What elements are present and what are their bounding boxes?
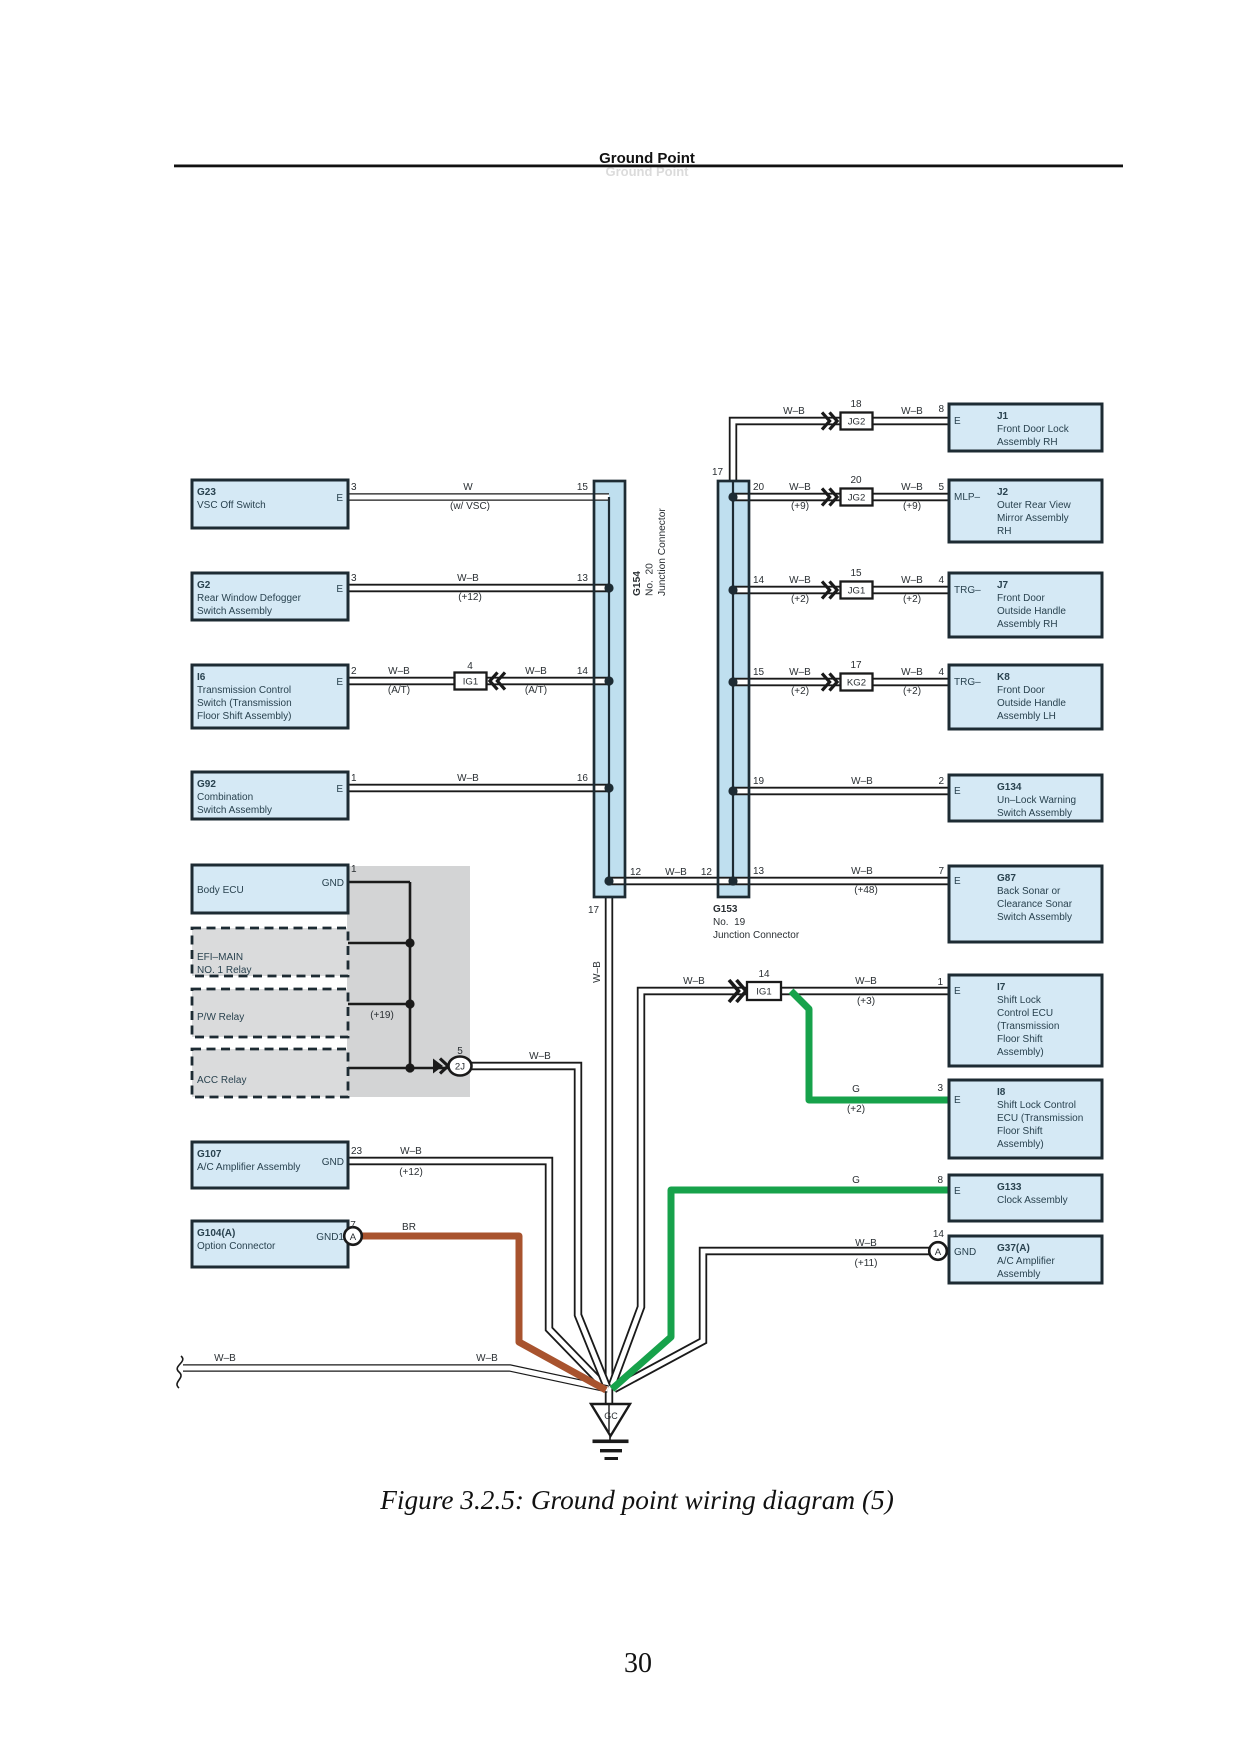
wire W-B from G153 pin 17 up and to JG2 to J1 pin 8 xyxy=(733,421,949,481)
svg-text:(+2): (+2) xyxy=(791,686,809,697)
svg-text:W–B: W–B xyxy=(901,667,923,678)
Body ECU box xyxy=(192,865,348,913)
svg-text:W–B: W–B xyxy=(214,1353,236,1364)
connector JG1 (J7 row) xyxy=(841,582,873,599)
svg-text:Transmission Control: Transmission Control xyxy=(197,685,291,696)
svg-text:GND1: GND1 xyxy=(316,1232,344,1243)
svg-text:(+2): (+2) xyxy=(791,594,809,605)
junction connector G154 bar fill xyxy=(594,481,625,897)
wire ACC relay to 2J connector xyxy=(346,1067,448,1070)
svg-text:8: 8 xyxy=(938,404,944,415)
svg-text:Rear Window Defogger: Rear Window Defogger xyxy=(197,593,302,604)
svg-text:Assembly RH: Assembly RH xyxy=(997,619,1058,630)
svg-text:14: 14 xyxy=(577,666,589,677)
connector IG1 (I7 row) xyxy=(747,982,781,1000)
svg-text:2J: 2J xyxy=(455,1062,465,1073)
svg-text:(+12): (+12) xyxy=(399,1167,423,1178)
connector JG2 (J2 row) xyxy=(841,489,873,506)
chevrons into JG2 (J2 row) xyxy=(822,488,837,505)
svg-text:W–B: W–B xyxy=(855,976,877,987)
wire EFI-MAIN relay to node xyxy=(346,942,410,944)
ground symbol bars xyxy=(609,1436,611,1441)
svg-text:5: 5 xyxy=(457,1046,463,1057)
wire W-B from G153 pin 20 to JG2 to J2 pin 5 xyxy=(733,493,949,501)
svg-text:JG2: JG2 xyxy=(848,493,866,504)
svg-text:12: 12 xyxy=(701,867,713,878)
svg-text:3: 3 xyxy=(351,573,357,584)
svg-text:E: E xyxy=(336,584,343,595)
wire vertical junction bus from Body ECU down to ACC relay wire xyxy=(409,882,412,1068)
svg-text:W–B: W–B xyxy=(783,406,805,417)
svg-text:I7: I7 xyxy=(997,982,1006,993)
node dot P/W relay xyxy=(405,999,414,1008)
ground triangle GC xyxy=(591,1404,630,1436)
junction dot at x=609 y=788 xyxy=(604,783,613,792)
connector I8 Shift Lock Control ECU xyxy=(949,1080,1102,1158)
P/W Relay dashed box xyxy=(192,989,348,1037)
svg-text:14: 14 xyxy=(758,969,770,980)
connector G87 Back Sonar or Clearance Sonar Switch Assembly xyxy=(949,866,1102,942)
svg-text:7: 7 xyxy=(938,866,944,877)
svg-text:5: 5 xyxy=(938,482,944,493)
svg-text:17: 17 xyxy=(712,467,724,478)
connector G37(A) A/C Amplifier Assembly xyxy=(949,1236,1102,1283)
svg-text:Option Connector: Option Connector xyxy=(197,1241,276,1252)
connector G92 Combination Switch Assembly xyxy=(192,772,348,819)
svg-text:W–B: W–B xyxy=(525,666,547,677)
svg-text:14: 14 xyxy=(933,1229,945,1240)
junction dot at x=609 y=881 xyxy=(604,876,613,885)
svg-text:RH: RH xyxy=(997,526,1011,537)
svg-text:Mirror Assembly: Mirror Assembly xyxy=(997,513,1069,524)
svg-text:19: 19 xyxy=(753,776,765,787)
chevrons into IG1 from right (I6 row) xyxy=(490,672,505,689)
svg-text:23: 23 xyxy=(351,1146,363,1157)
circle A terminal at G104(A) xyxy=(344,1227,362,1245)
svg-text:16: 16 xyxy=(577,773,589,784)
svg-text:3: 3 xyxy=(937,1083,943,1094)
svg-text:A/C Amplifier Assembly: A/C Amplifier Assembly xyxy=(197,1162,300,1173)
svg-text:Assembly: Assembly xyxy=(997,1269,1040,1280)
svg-text:Clearance Sonar: Clearance Sonar xyxy=(997,899,1073,910)
svg-text:J1: J1 xyxy=(997,411,1009,422)
svg-text:GND: GND xyxy=(322,1157,344,1168)
svg-text:TRG–: TRG– xyxy=(954,677,981,688)
svg-text:E: E xyxy=(336,677,343,688)
svg-text:(+2): (+2) xyxy=(903,686,921,697)
svg-text:W–B: W–B xyxy=(683,976,705,987)
svg-text:W–B: W–B xyxy=(789,575,811,586)
svg-text:7: 7 xyxy=(350,1220,356,1231)
svg-text:G133: G133 xyxy=(997,1182,1022,1193)
ACC Relay dashed box xyxy=(192,1049,348,1097)
junction connector G153 bar fill xyxy=(718,481,749,897)
svg-text:(+48): (+48) xyxy=(854,885,878,896)
svg-text:NO. 1 Relay: NO. 1 Relay xyxy=(197,965,251,976)
svg-text:GND: GND xyxy=(322,878,344,889)
svg-text:G37(A): G37(A) xyxy=(997,1243,1030,1254)
svg-text:W–B: W–B xyxy=(592,961,603,983)
svg-text:GND: GND xyxy=(954,1247,976,1258)
connector G104(A) Option Connector xyxy=(192,1221,348,1267)
label G154 No. 20 Junction Connector (rotated) xyxy=(632,508,668,596)
svg-text:W: W xyxy=(463,482,473,493)
svg-text:Assembly LH: Assembly LH xyxy=(997,711,1056,722)
svg-text:JG2: JG2 xyxy=(848,417,866,428)
connector KG2 (K8 row) xyxy=(841,674,873,691)
svg-text:G: G xyxy=(852,1175,860,1186)
svg-text:Outer Rear View: Outer Rear View xyxy=(997,500,1072,511)
connector G2 Rear Window Defogger Switch Assembly xyxy=(192,573,348,620)
svg-text:Un–Lock Warning: Un–Lock Warning xyxy=(997,795,1076,806)
svg-text:Outside Handle: Outside Handle xyxy=(997,606,1066,617)
svg-text:8: 8 xyxy=(937,1175,943,1186)
svg-text:E: E xyxy=(954,786,961,797)
svg-text:Switch Assembly: Switch Assembly xyxy=(197,606,272,617)
svg-text:Back Sonar or: Back Sonar or xyxy=(997,886,1061,897)
svg-text:Body ECU: Body ECU xyxy=(197,885,244,896)
svg-text:W–B: W–B xyxy=(901,575,923,586)
junction dot at x=733 y=590 xyxy=(728,585,737,594)
svg-text:17: 17 xyxy=(588,905,600,916)
svg-text:W–B: W–B xyxy=(789,667,811,678)
svg-text:2: 2 xyxy=(938,776,944,787)
wire W-B long from off-page left to ground point xyxy=(183,1368,608,1389)
chevrons into IG1 (I7 row) xyxy=(729,980,746,1002)
svg-text:4: 4 xyxy=(938,575,944,586)
svg-text:Control ECU: Control ECU xyxy=(997,1008,1053,1019)
wire W-B from G153 pin 14 to JG1 to J7 pin 4 xyxy=(733,586,949,594)
node dot ACC relay xyxy=(405,1063,414,1072)
svg-text:G87: G87 xyxy=(997,873,1016,884)
svg-text:Junction Connector: Junction Connector xyxy=(713,930,800,941)
svg-text:BR: BR xyxy=(402,1222,416,1233)
svg-text:G2: G2 xyxy=(197,580,211,591)
chevrons into KG2 (K8 row) xyxy=(822,673,837,690)
svg-text:W–B: W–B xyxy=(457,773,479,784)
svg-text:13: 13 xyxy=(753,866,765,877)
svg-text:G92: G92 xyxy=(197,779,216,790)
svg-text:Front Door: Front Door xyxy=(997,685,1045,696)
svg-text:A: A xyxy=(350,1232,357,1243)
svg-text:W–B: W–B xyxy=(851,776,873,787)
svg-text:(+2): (+2) xyxy=(847,1104,865,1115)
svg-text:15: 15 xyxy=(577,482,589,493)
svg-text:20: 20 xyxy=(850,475,862,486)
svg-text:E: E xyxy=(954,1186,961,1197)
svg-text:E: E xyxy=(954,416,961,427)
circle A terminal at G37(A) xyxy=(929,1242,947,1260)
svg-text:Assembly): Assembly) xyxy=(997,1139,1044,1150)
svg-text:15: 15 xyxy=(753,667,765,678)
wire G green from G133 pin 8 to ground point xyxy=(612,1190,949,1389)
wire BR brown from G104(A) GND1 to ground point xyxy=(361,1236,606,1390)
wire W-B from G37(A) pin 14 down to ground point xyxy=(614,1251,929,1389)
svg-text:ECU (Transmission: ECU (Transmission xyxy=(997,1113,1083,1124)
svg-text:W–B: W–B xyxy=(855,1238,877,1249)
svg-text:17: 17 xyxy=(850,660,862,671)
svg-text:(A/T): (A/T) xyxy=(388,685,410,696)
svg-text:20: 20 xyxy=(753,482,765,493)
connector I6 Transmission Control Switch xyxy=(192,665,348,728)
svg-text:W–B: W–B xyxy=(789,482,811,493)
svg-text:(+2): (+2) xyxy=(903,594,921,605)
svg-text:Switch Assembly: Switch Assembly xyxy=(997,912,1072,923)
junction connector G153 bar border xyxy=(718,481,749,897)
svg-text:W–B: W–B xyxy=(400,1146,422,1157)
svg-text:13: 13 xyxy=(577,573,589,584)
svg-text:(+19): (+19) xyxy=(370,1010,394,1021)
svg-text:14: 14 xyxy=(753,575,765,586)
svg-text:(A/T): (A/T) xyxy=(525,685,547,696)
junction dot at x=733 y=881 xyxy=(728,876,737,885)
svg-text:W–B: W–B xyxy=(901,406,923,417)
svg-text:Floor Shift: Floor Shift xyxy=(997,1126,1043,1137)
svg-text:Switch Assembly: Switch Assembly xyxy=(997,808,1072,819)
svg-text:(+3): (+3) xyxy=(857,996,875,1007)
svg-text:1: 1 xyxy=(351,864,357,875)
svg-text:E: E xyxy=(336,493,343,504)
svg-text:J7: J7 xyxy=(997,580,1009,591)
wire W-B from G92 to G154 pin 16 xyxy=(346,784,609,792)
G154 internal bus line xyxy=(608,497,610,881)
svg-text:4: 4 xyxy=(467,661,473,672)
header rule xyxy=(174,165,1123,168)
svg-text:E: E xyxy=(954,1095,961,1106)
svg-text:W–B: W–B xyxy=(851,866,873,877)
wire W-B from I6 to IG1 connector xyxy=(346,677,470,685)
wire G green branch from IG1 to I8 pin 3 xyxy=(791,991,949,1100)
svg-text:W–B: W–B xyxy=(529,1051,551,1062)
svg-text:G153: G153 xyxy=(713,904,738,915)
EFI-MAIN NO. 1 Relay dashed box xyxy=(192,928,348,976)
svg-text:1: 1 xyxy=(937,977,943,988)
svg-text:W–B: W–B xyxy=(457,573,479,584)
svg-text:JG1: JG1 xyxy=(848,586,866,597)
svg-text:TRG–: TRG– xyxy=(954,585,981,596)
svg-text:G107: G107 xyxy=(197,1149,222,1160)
svg-text:Assembly RH: Assembly RH xyxy=(997,437,1058,448)
connector G23 VSC Off Switch xyxy=(192,480,348,528)
svg-text:E: E xyxy=(954,876,961,887)
svg-text:(+11): (+11) xyxy=(855,1258,878,1269)
wire W-B ground riser from G154 pin 17 to ground point GC xyxy=(605,897,613,1404)
svg-text:W–B: W–B xyxy=(665,867,687,878)
svg-text:ACC Relay: ACC Relay xyxy=(197,1075,246,1086)
chevrons into JG2 (J1 row) xyxy=(822,412,837,429)
svg-text:(+9): (+9) xyxy=(903,501,921,512)
svg-text:GC: GC xyxy=(604,1411,618,1421)
svg-text:No. 19: No. 19 xyxy=(713,917,746,928)
wire W-B from I7 pin 1 through IG1 down to ground point xyxy=(611,991,949,1388)
svg-text:(Transmission: (Transmission xyxy=(997,1021,1059,1032)
wire W from G23 to G154 pin 15 xyxy=(346,493,609,500)
wire Body ECU GND to junction node xyxy=(346,881,410,883)
svg-text:30: 30 xyxy=(624,1648,652,1679)
connector G133 Clock Assembly xyxy=(949,1175,1102,1221)
svg-text:KG2: KG2 xyxy=(847,678,866,689)
svg-text:MLP–: MLP– xyxy=(954,492,981,503)
svg-text:(+9): (+9) xyxy=(791,501,809,512)
svg-text:Floor Shift: Floor Shift xyxy=(997,1034,1043,1045)
svg-text:Front Door Lock: Front Door Lock xyxy=(997,424,1070,435)
svg-text:(w/ VSC): (w/ VSC) xyxy=(450,501,490,512)
svg-text:VSC Off Switch: VSC Off Switch xyxy=(197,500,266,511)
svg-text:Switch Assembly: Switch Assembly xyxy=(197,805,272,816)
connector G134 Un-Lock Warning Switch Assembly xyxy=(949,775,1102,821)
svg-text:15: 15 xyxy=(850,568,862,579)
svg-text:G134: G134 xyxy=(997,782,1022,793)
svg-text:Floor Shift Assembly): Floor Shift Assembly) xyxy=(197,711,291,722)
gray background panel behind relay group xyxy=(347,866,470,1097)
svg-text:1: 1 xyxy=(351,773,357,784)
connector J7 Front Door Outside Handle Assembly RH xyxy=(949,573,1102,637)
connector IG1 (I6 row) xyxy=(455,673,487,690)
svg-text:2: 2 xyxy=(351,666,357,677)
svg-text:E: E xyxy=(954,986,961,997)
svg-text:Combination: Combination xyxy=(197,792,253,803)
wire W-B from G154 pin 12 to G153 pin 12 and out pin 13 to G87 pin 7 xyxy=(609,877,949,885)
chevrons into JG1 (J7 row) xyxy=(822,581,837,598)
svg-text:W–B: W–B xyxy=(388,666,410,677)
svg-text:G104(A): G104(A) xyxy=(197,1228,235,1239)
wire W-B from ACC relay 2J connector down to ground point xyxy=(471,1066,607,1387)
connector I7 Shift Lock Control ECU xyxy=(949,975,1102,1066)
svg-text:12: 12 xyxy=(630,867,642,878)
svg-text:G154: G154 xyxy=(632,571,643,596)
svg-text:I6: I6 xyxy=(197,672,206,683)
svg-text:No. 20: No. 20 xyxy=(645,563,656,596)
svg-text:3: 3 xyxy=(351,482,357,493)
svg-text:A: A xyxy=(935,1247,942,1258)
wire W-B from G2 to G154 pin 13 xyxy=(346,584,609,592)
connector G107 A/C Amplifier Assembly xyxy=(192,1142,348,1188)
junction dot at x=609 y=588 xyxy=(604,583,613,592)
wire W-B from G107 GND down to ground point xyxy=(346,1161,606,1388)
svg-text:Clock Assembly: Clock Assembly xyxy=(997,1195,1068,1206)
svg-text:Junction Connector: Junction Connector xyxy=(657,508,668,596)
svg-text:EFI–MAIN: EFI–MAIN xyxy=(197,952,243,963)
svg-text:18: 18 xyxy=(850,399,862,410)
junction dot at x=609 y=681 xyxy=(604,676,613,685)
svg-text:Outside Handle: Outside Handle xyxy=(997,698,1066,709)
svg-text:Figure 3.2.5: Ground point wir: Figure 3.2.5: Ground point wiring diagra… xyxy=(379,1485,894,1515)
junction connector G154 bar border xyxy=(594,481,625,897)
svg-text:Front Door: Front Door xyxy=(997,593,1045,604)
junction dot at x=733 y=682 xyxy=(728,677,737,686)
G153 internal bus line xyxy=(732,481,734,881)
svg-text:(+12): (+12) xyxy=(458,592,482,603)
svg-text:Switch (Transmission: Switch (Transmission xyxy=(197,698,292,709)
svg-text:A/C Amplifier: A/C Amplifier xyxy=(997,1256,1055,1267)
svg-text:4: 4 xyxy=(938,667,944,678)
connector 2J oval xyxy=(449,1057,472,1076)
svg-text:K8: K8 xyxy=(997,672,1010,683)
off-page squiggle on long W-B wire xyxy=(177,1356,183,1388)
connector JG2 (J1 row) xyxy=(841,413,873,430)
svg-text:E: E xyxy=(336,784,343,795)
wire P/W relay to node xyxy=(346,1003,410,1005)
svg-text:Assembly): Assembly) xyxy=(997,1047,1044,1058)
svg-text:Shift Lock: Shift Lock xyxy=(997,995,1042,1006)
junction dot at x=733 y=497 xyxy=(728,492,737,501)
svg-text:W–B: W–B xyxy=(901,482,923,493)
svg-text:IG1: IG1 xyxy=(756,987,771,998)
svg-text:J2: J2 xyxy=(997,487,1009,498)
connector J2 Outer Rear View Mirror Assembly RH xyxy=(949,480,1102,542)
svg-text:P/W Relay: P/W Relay xyxy=(197,1012,244,1023)
node dot EFI-MAIN xyxy=(405,938,414,947)
wire W-B from IG1 to G154 pin 14 xyxy=(470,677,609,685)
svg-text:I8: I8 xyxy=(997,1087,1006,1098)
svg-text:G: G xyxy=(852,1084,860,1095)
svg-text:G23: G23 xyxy=(197,487,216,498)
junction dot at x=733 y=791 xyxy=(728,786,737,795)
connector K8 Front Door Outside Handle Assembly LH xyxy=(949,665,1102,729)
arrow into 2J connector (ACC relay row) xyxy=(433,1059,443,1074)
svg-text:W–B: W–B xyxy=(476,1353,498,1364)
connector J1 Front Door Lock Assembly RH xyxy=(949,404,1102,451)
svg-text:IG1: IG1 xyxy=(463,677,478,688)
svg-text:Shift Lock Control: Shift Lock Control xyxy=(997,1100,1076,1111)
wire W-B from G153 pin 19 to G134 pin 2 xyxy=(733,787,949,795)
wire W-B from G153 pin 15 to KG2 to K8 pin 4 xyxy=(733,678,949,686)
